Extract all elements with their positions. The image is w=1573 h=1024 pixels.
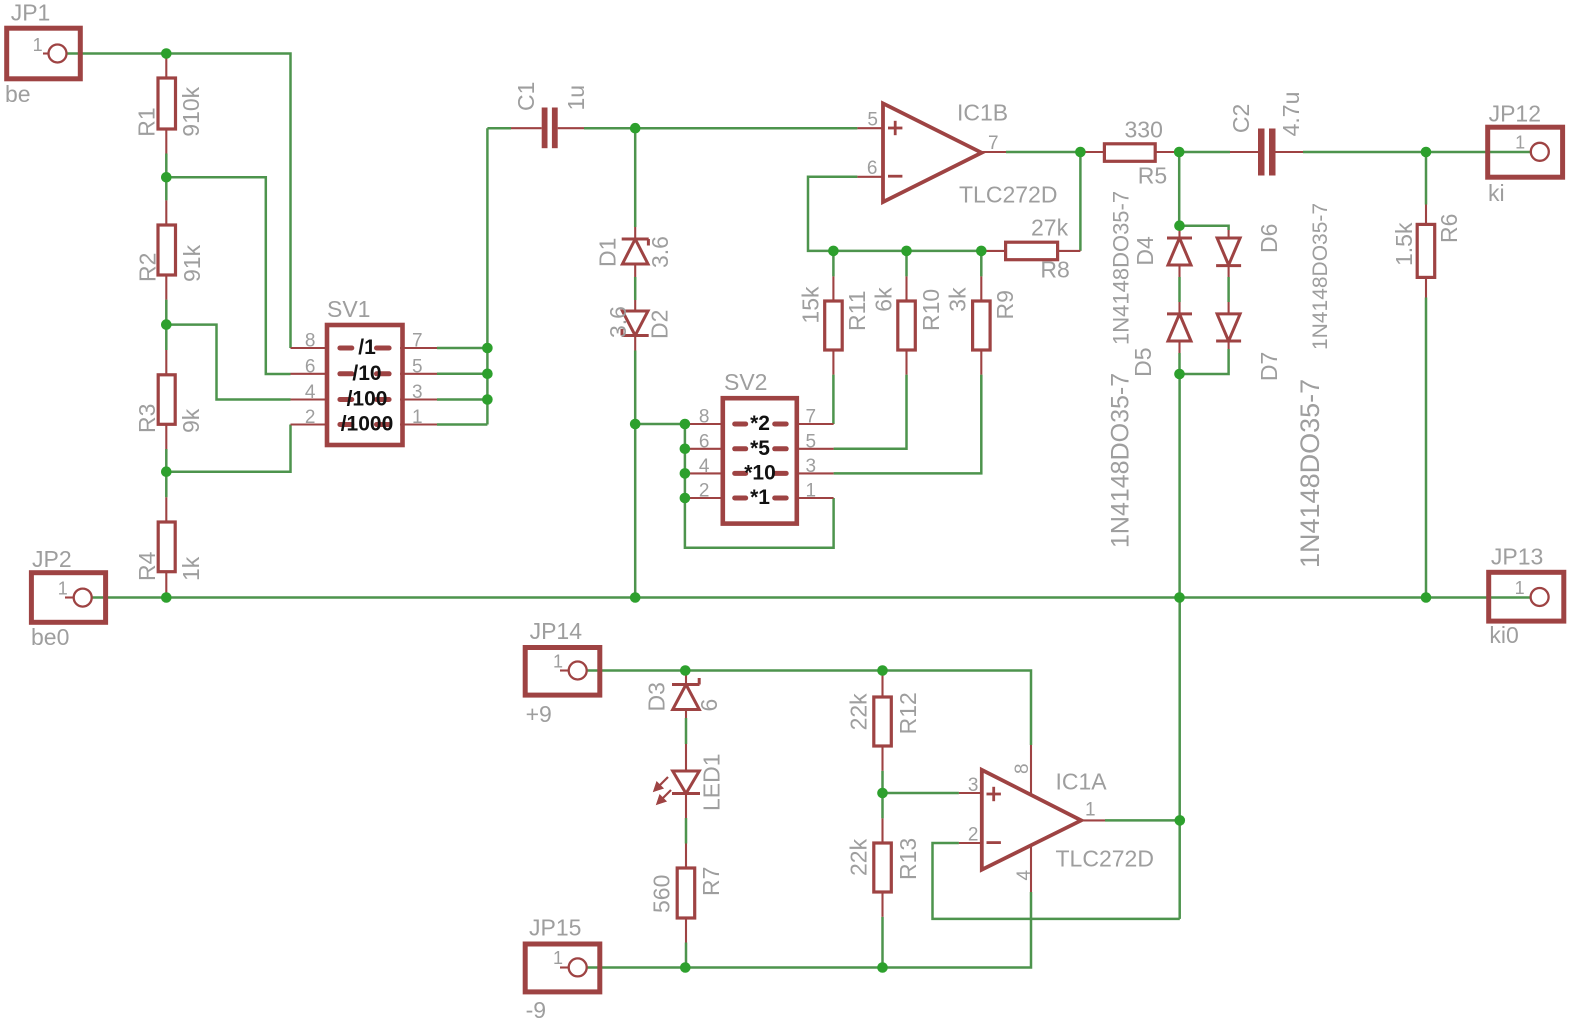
svg-text:be0: be0 xyxy=(31,624,69,650)
svg-text:R12: R12 xyxy=(895,692,921,734)
svg-text:1N4148DO35-7: 1N4148DO35-7 xyxy=(1107,373,1135,548)
svg-text:6: 6 xyxy=(867,158,878,179)
svg-text:1N4148DO35-7: 1N4148DO35-7 xyxy=(1109,191,1134,345)
svg-text:3: 3 xyxy=(412,382,423,403)
svg-text:R11: R11 xyxy=(844,291,870,332)
svg-text:6: 6 xyxy=(305,356,316,377)
svg-text:*2: *2 xyxy=(750,412,770,435)
svg-text:3: 3 xyxy=(968,775,979,796)
svg-text:5: 5 xyxy=(412,356,423,377)
svg-text:22k: 22k xyxy=(846,838,872,876)
svg-text:be: be xyxy=(5,81,31,107)
svg-text:7: 7 xyxy=(412,331,423,352)
svg-text:IC1B: IC1B xyxy=(957,100,1008,126)
svg-text:*5: *5 xyxy=(750,437,770,460)
svg-text:3: 3 xyxy=(806,456,817,477)
svg-text:3.6: 3.6 xyxy=(605,306,631,338)
svg-text:6k: 6k xyxy=(871,287,897,312)
svg-text:R6: R6 xyxy=(1436,214,1462,243)
svg-text:1.5k: 1.5k xyxy=(1391,222,1417,266)
svg-text:15k: 15k xyxy=(798,286,824,324)
svg-text:R1: R1 xyxy=(133,107,159,136)
svg-text:/1: /1 xyxy=(358,336,376,359)
svg-text:D3: D3 xyxy=(644,682,670,711)
svg-text:D6: D6 xyxy=(1256,224,1282,253)
svg-text:*10: *10 xyxy=(744,461,776,484)
svg-text:6: 6 xyxy=(696,699,722,712)
svg-text:91k: 91k xyxy=(179,244,205,282)
svg-text:7: 7 xyxy=(806,407,817,428)
svg-text:1: 1 xyxy=(1515,578,1525,598)
svg-text:560: 560 xyxy=(649,875,675,913)
svg-text:27k: 27k xyxy=(1031,215,1069,241)
svg-text:1N4148DO35-7: 1N4148DO35-7 xyxy=(1309,203,1332,350)
svg-text:D2: D2 xyxy=(646,310,672,339)
svg-text:ki0: ki0 xyxy=(1489,622,1518,648)
svg-text:D4: D4 xyxy=(1132,236,1158,266)
svg-text:8: 8 xyxy=(699,407,710,428)
svg-text:4: 4 xyxy=(305,382,316,403)
svg-text:JP14: JP14 xyxy=(530,618,583,644)
svg-text:R5: R5 xyxy=(1138,162,1167,188)
svg-text:R13: R13 xyxy=(895,838,921,880)
svg-text:3.6: 3.6 xyxy=(647,236,673,268)
svg-text:8: 8 xyxy=(305,331,316,352)
svg-text:TLC272D: TLC272D xyxy=(1056,846,1154,872)
svg-text:1: 1 xyxy=(1085,800,1096,821)
svg-text:/100: /100 xyxy=(347,388,388,411)
svg-text:4.7u: 4.7u xyxy=(1278,92,1304,137)
svg-text:8: 8 xyxy=(1012,763,1033,774)
svg-text:JP15: JP15 xyxy=(529,915,581,941)
svg-text:4: 4 xyxy=(1014,870,1035,881)
svg-text:6: 6 xyxy=(699,431,710,452)
svg-text:1: 1 xyxy=(553,651,563,671)
svg-text:22k: 22k xyxy=(846,693,872,731)
svg-text:JP13: JP13 xyxy=(1491,544,1543,570)
svg-text:3k: 3k xyxy=(944,287,970,312)
svg-text:R10: R10 xyxy=(918,289,944,331)
svg-text:2: 2 xyxy=(699,481,710,502)
svg-text:JP2: JP2 xyxy=(32,546,72,572)
svg-text:1: 1 xyxy=(1515,132,1525,152)
svg-text:TLC272D: TLC272D xyxy=(959,182,1057,208)
svg-text:C2: C2 xyxy=(1228,104,1254,133)
svg-text:1N4148DO35-7: 1N4148DO35-7 xyxy=(1295,379,1325,568)
svg-text:1k: 1k xyxy=(178,556,204,581)
svg-text:SV1: SV1 xyxy=(327,296,370,322)
svg-text:ki: ki xyxy=(1488,180,1505,206)
svg-text:2: 2 xyxy=(968,825,979,846)
svg-text:+9: +9 xyxy=(526,701,552,727)
svg-text:C1: C1 xyxy=(513,82,539,111)
svg-text:LED1: LED1 xyxy=(699,753,725,811)
svg-text:*1: *1 xyxy=(750,486,770,509)
svg-text:5: 5 xyxy=(867,110,878,131)
svg-text:/10: /10 xyxy=(352,362,381,385)
svg-text:1: 1 xyxy=(58,578,68,598)
svg-text:1: 1 xyxy=(806,481,817,502)
svg-text:2: 2 xyxy=(305,407,316,428)
svg-text:-9: -9 xyxy=(526,997,546,1023)
svg-text:JP1: JP1 xyxy=(11,0,51,26)
svg-text:5: 5 xyxy=(806,431,817,452)
svg-text:D5: D5 xyxy=(1130,347,1156,376)
svg-text:1: 1 xyxy=(553,948,563,968)
svg-text:1u: 1u xyxy=(563,85,589,111)
svg-text:1: 1 xyxy=(33,35,43,55)
svg-text:D7: D7 xyxy=(1256,352,1282,381)
svg-text:910k: 910k xyxy=(178,86,204,136)
svg-text:JP12: JP12 xyxy=(1489,101,1541,127)
svg-text:/1000: /1000 xyxy=(341,413,394,436)
svg-text:R7: R7 xyxy=(698,867,724,896)
svg-text:9k: 9k xyxy=(178,408,204,433)
svg-text:1: 1 xyxy=(412,407,423,428)
svg-text:IC1A: IC1A xyxy=(1056,769,1108,795)
svg-text:330: 330 xyxy=(1125,117,1163,143)
svg-text:R4: R4 xyxy=(134,551,160,581)
svg-text:R9: R9 xyxy=(992,290,1018,319)
svg-text:R3: R3 xyxy=(134,404,160,433)
svg-text:4: 4 xyxy=(699,456,710,477)
svg-text:SV2: SV2 xyxy=(724,369,767,395)
svg-text:R2: R2 xyxy=(135,253,161,282)
svg-text:7: 7 xyxy=(988,133,999,154)
svg-text:R8: R8 xyxy=(1040,257,1069,283)
svg-text:D1: D1 xyxy=(594,238,620,267)
